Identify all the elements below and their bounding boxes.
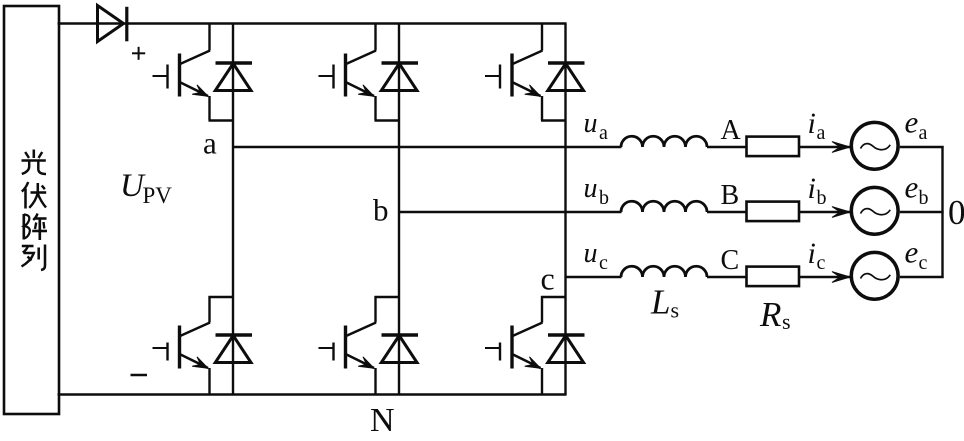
svg-text:L: L: [650, 283, 670, 322]
plus label: [132, 47, 145, 60]
current arrow i_b: [832, 207, 850, 218]
wire source a to bus: [900, 146, 944, 148]
label e_a: [905, 105, 928, 145]
wire right bus: [941, 146, 943, 278]
node b label: [373, 193, 389, 228]
svg-text:c: c: [919, 252, 928, 274]
node a label: [203, 126, 217, 161]
svg-text:b: b: [919, 187, 929, 209]
svg-text:s: s: [782, 309, 791, 334]
wire bottom rail: [58, 393, 567, 395]
svg-text:e: e: [905, 235, 919, 270]
wire phase a to inductor: [233, 146, 622, 148]
current arrow i_c: [832, 272, 850, 283]
resistor R_c: [747, 267, 800, 287]
wire B node: [707, 211, 747, 213]
label U_PV: [120, 168, 172, 208]
diode D1 (series blocking): [98, 6, 127, 42]
diode D2 (antiparallel, top leg a): [215, 63, 252, 91]
svg-text:u: u: [584, 238, 598, 269]
current arrow i_a: [832, 142, 850, 153]
IGBT Q5 (top of leg c): [485, 24, 566, 121]
svg-text:e: e: [905, 105, 919, 140]
svg-text:C: C: [721, 245, 740, 276]
IGBT Q6 (bot of leg c): [485, 296, 566, 395]
IGBT Q3 (top of leg b): [319, 24, 400, 121]
svg-text:R: R: [759, 295, 781, 334]
wire resistor to source b: [799, 211, 853, 213]
svg-text:PV: PV: [143, 183, 173, 208]
svg-text:c: c: [599, 252, 608, 274]
svg-text:a: a: [599, 122, 608, 144]
svg-text:e: e: [905, 170, 919, 205]
label e_b: [905, 170, 929, 210]
svg-text:i: i: [808, 172, 816, 205]
wire leg b vertical: [398, 24, 400, 395]
svg-text:u: u: [584, 173, 598, 204]
label i_a: [808, 107, 826, 144]
label N: [370, 402, 395, 439]
svg-text:u: u: [584, 108, 598, 139]
wire source b to bus: [900, 211, 944, 213]
svg-text:b: b: [373, 193, 389, 228]
svg-text:0: 0: [948, 193, 964, 232]
diode D7 (antiparallel, bot leg c): [548, 335, 585, 363]
svg-text:b: b: [817, 187, 827, 209]
svg-text:a: a: [919, 122, 928, 144]
minus label: [131, 374, 148, 376]
svg-text:i: i: [808, 107, 816, 140]
diode D4 (antiparallel, top leg b): [381, 63, 418, 91]
node B label: [721, 180, 740, 211]
wire top rail: [58, 22, 567, 24]
node A label: [721, 115, 742, 146]
svg-text:b: b: [599, 187, 609, 209]
label e_c: [905, 235, 928, 275]
label R_s: [759, 295, 791, 334]
svg-text:s: s: [671, 298, 680, 323]
svg-text:B: B: [721, 180, 740, 211]
diode D5 (antiparallel, bot leg b): [381, 335, 418, 363]
wire C node: [707, 276, 747, 278]
PV array label 光伏阵列: [22, 150, 48, 271]
PV array box: [4, 6, 59, 414]
wire phase c to inductor: [566, 276, 622, 278]
inductor L_b: [621, 201, 707, 212]
inductor L_a: [621, 136, 707, 147]
svg-text:i: i: [808, 237, 816, 270]
svg-text:A: A: [721, 115, 742, 146]
node c label: [541, 261, 555, 297]
resistor R_a: [747, 137, 800, 157]
wire source c to bus: [900, 276, 944, 278]
svg-text:N: N: [370, 402, 395, 439]
IGBT Q4 (bot of leg b): [319, 296, 400, 395]
wire resistor to source a: [799, 146, 853, 148]
label u_a: [584, 108, 609, 144]
svg-text:a: a: [817, 122, 826, 144]
AC source e_a: [851, 122, 898, 169]
IGBT Q1 (top of leg a): [153, 24, 234, 121]
AC source e_c: [851, 252, 898, 299]
wire leg c vertical: [564, 24, 566, 395]
IGBT Q2 (bot of leg a): [153, 296, 234, 395]
label i_b: [808, 172, 827, 209]
label L_s: [650, 283, 679, 323]
svg-text:c: c: [541, 261, 555, 297]
svg-text:c: c: [817, 252, 826, 274]
wire resistor to source c: [799, 276, 853, 278]
node C label: [721, 245, 740, 276]
AC source e_b: [851, 187, 898, 234]
wire phase b to inductor: [399, 211, 622, 213]
diode D3 (antiparallel, bot leg a): [215, 335, 252, 363]
diode D6 (antiparallel, top leg c): [548, 63, 585, 91]
wire A node: [707, 146, 747, 148]
wire leg a vertical: [232, 24, 234, 395]
resistor R_b: [747, 202, 800, 222]
inductor L_c: [621, 266, 707, 277]
label i_c: [808, 237, 826, 274]
svg-text:a: a: [203, 126, 217, 161]
node 0 label: [948, 193, 964, 232]
label u_c: [584, 238, 609, 274]
label u_b: [584, 173, 610, 209]
